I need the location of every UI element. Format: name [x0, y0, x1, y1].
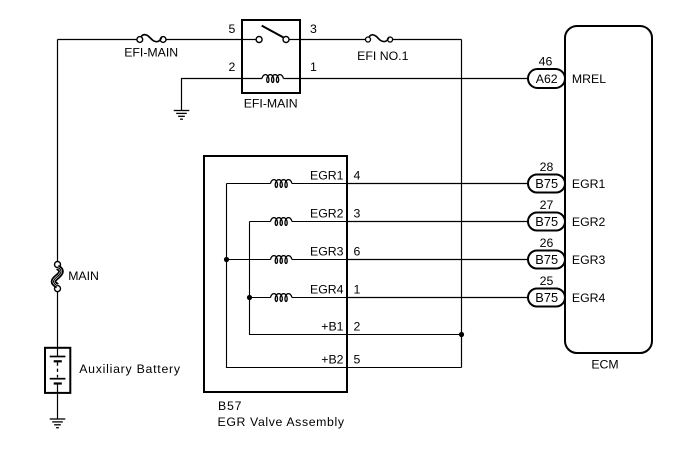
svg-text:EGR2: EGR2: [572, 215, 606, 229]
svg-text:3: 3: [310, 22, 317, 36]
junction: +B1 on feed vertical: [459, 332, 464, 337]
svg-text:4: 4: [354, 168, 361, 182]
svg-text:EGR3: EGR3: [310, 244, 344, 258]
svg-text:MAIN: MAIN: [68, 269, 99, 283]
svg-text:Auxiliary Battery: Auxiliary Battery: [79, 362, 181, 376]
wire: EGR valve pin to ECM EGR1 (B75): [347, 183, 528, 185]
svg-text:25: 25: [540, 274, 554, 288]
battery (Auxiliary Battery): [45, 348, 70, 393]
svg-text:+B2: +B2: [321, 352, 343, 366]
ground (relay coil): [174, 111, 190, 120]
wire: EFI-MAIN fuse to relay pin 5: [166, 39, 242, 41]
fusible link MAIN: [54, 262, 62, 292]
solenoid coil EGR2: [250, 218, 348, 226]
connector A62 pin 46: [528, 69, 565, 88]
svg-text:3: 3: [354, 206, 361, 220]
svg-text:EGR4: EGR4: [310, 282, 344, 296]
relay EFI-MAIN: [242, 20, 300, 93]
svg-text:46: 46: [539, 54, 553, 68]
junction: EGR3 on +B2 bus: [224, 257, 229, 262]
svg-text:B75: B75: [535, 176, 558, 191]
wire: EGR valve pin to ECM EGR3 (B75): [347, 259, 528, 261]
solenoid coil EGR1: [227, 180, 348, 188]
svg-text:2: 2: [228, 60, 235, 74]
svg-text:27: 27: [540, 198, 554, 212]
svg-text:EFI NO.1: EFI NO.1: [357, 49, 408, 63]
svg-text:B75: B75: [535, 290, 558, 305]
connector B75 pin 26: [528, 251, 565, 269]
wire: MAIN link to battery: [57, 292, 59, 348]
svg-text:EFI-MAIN: EFI-MAIN: [124, 46, 178, 60]
solenoid coil EGR3: [227, 256, 348, 264]
svg-text:EGR1: EGR1: [310, 168, 344, 182]
wire: EGR valve pin to ECM EGR2 (B75): [347, 221, 528, 223]
wire: relay pin 2 to ground: [182, 79, 243, 111]
solenoid coil EGR4: [250, 294, 348, 302]
svg-text:28: 28: [540, 160, 554, 174]
svg-text:1: 1: [354, 282, 361, 296]
svg-text:B75: B75: [535, 252, 558, 267]
connector B75 pin 25: [528, 289, 565, 307]
svg-text:EGR4: EGR4: [572, 291, 606, 305]
ECM: [565, 26, 652, 353]
svg-text:2: 2: [354, 319, 361, 333]
connector B75 pin 28: [528, 175, 565, 193]
svg-text:EFI-MAIN: EFI-MAIN: [244, 97, 298, 111]
svg-text:26: 26: [540, 236, 554, 250]
EGR valve assembly B57 box: [204, 156, 347, 392]
svg-text:EGR1: EGR1: [572, 177, 606, 191]
wire: EFI NO.1 fuse to +B feed corner: [393, 39, 462, 41]
wire: +B2 bus (left): [227, 184, 462, 368]
svg-text:6: 6: [354, 244, 361, 258]
svg-text:A62: A62: [536, 72, 558, 86]
svg-text:MREL: MREL: [572, 72, 606, 86]
svg-text:5: 5: [228, 22, 235, 36]
svg-text:5: 5: [354, 352, 361, 366]
ground (battery): [50, 419, 66, 428]
fuse EFI NO.1: [366, 35, 393, 42]
wire: relay pin 1 to ECM MREL (A62): [300, 78, 528, 80]
svg-text:ECM: ECM: [591, 358, 618, 372]
svg-text:EGR Valve Assembly: EGR Valve Assembly: [218, 415, 345, 429]
svg-text:B75: B75: [535, 214, 558, 229]
svg-text:+B1: +B1: [321, 319, 343, 333]
wire: +B feed vertical (EFI NO.1 to +B1/+B2): [461, 40, 463, 368]
svg-text:1: 1: [310, 60, 317, 74]
relay coil: [242, 75, 300, 83]
junction: EGR4 on +B1 bus: [247, 295, 252, 300]
wire: left vertical rail from top rail to MAIN fusible link: [57, 40, 59, 262]
connector B75 pin 27: [528, 213, 565, 231]
fuse EFI-MAIN: [137, 35, 166, 43]
svg-text:EGR2: EGR2: [310, 206, 344, 220]
svg-text:B57: B57: [218, 399, 242, 413]
wire: EGR valve pin to ECM EGR4 (B75): [347, 297, 528, 299]
svg-text:EGR3: EGR3: [572, 253, 606, 267]
wire: battery - to ground: [57, 393, 59, 419]
wire: relay pin 3 to EFI NO.1 fuse: [300, 39, 366, 41]
wire: +B1 bus (right): [250, 222, 462, 335]
wire: battery + to EFI-MAIN fuse (top rail left): [58, 39, 137, 41]
